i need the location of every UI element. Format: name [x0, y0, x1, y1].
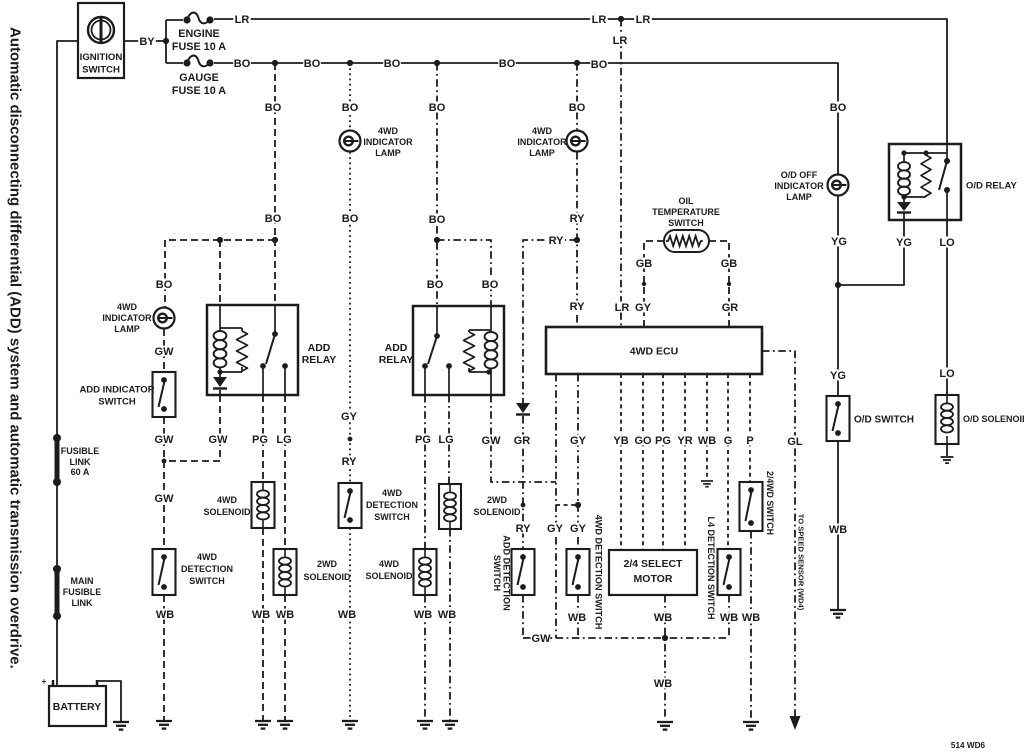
label GY x556	[546, 523, 564, 536]
label O/D OFF INDICATOR LAMP	[774, 170, 824, 202]
svg-text:2WD: 2WD	[317, 559, 338, 569]
2/4WD switch S9	[740, 482, 763, 531]
svg-text:O/D SWITCH: O/D SWITCH	[854, 415, 914, 426]
label BO x491	[481, 279, 499, 292]
ADD relay K1 box	[207, 305, 298, 395]
label PG x663	[654, 435, 672, 448]
svg-text:BO: BO	[156, 279, 173, 291]
svg-text:O/D RELAY: O/D RELAY	[966, 180, 1018, 191]
ground x838	[830, 610, 846, 618]
label WB x665 lower	[654, 678, 672, 691]
label LR on bus 2	[590, 14, 608, 27]
wire x164 switch to ground	[163, 595, 165, 720]
wire LG relay1 to 2WD solenoid	[284, 395, 286, 549]
svg-text:LO: LO	[939, 237, 955, 249]
arrow to speed sensor	[790, 716, 801, 730]
label ADD RELAY (K2)	[379, 342, 414, 366]
svg-text:RELAY: RELAY	[302, 354, 337, 366]
2/4 select motor M1	[609, 550, 697, 595]
ground x947	[941, 457, 954, 463]
label WB x578	[568, 612, 586, 625]
svg-text:GAUGE: GAUGE	[179, 72, 219, 84]
svg-text:BO: BO	[304, 58, 321, 70]
svg-text:O/D SOLENOID: O/D SOLENOID	[963, 414, 1024, 424]
label LR x621 lower	[613, 302, 631, 315]
wire LR bus	[214, 19, 947, 144]
label YR	[676, 435, 694, 448]
label 4WD INDICATOR LAMP (L1)	[363, 126, 413, 158]
wire x523 switch to WB bus	[522, 595, 524, 638]
label GW x165 upper	[155, 346, 175, 359]
svg-text:OIL: OIL	[679, 196, 695, 206]
label O/D RELAY	[966, 180, 1018, 191]
svg-text:LR: LR	[592, 14, 607, 26]
svg-text:GY: GY	[341, 411, 358, 423]
svg-text:TEMPERATURE: TEMPERATURE	[652, 207, 720, 217]
svg-text:LINK: LINK	[70, 457, 91, 467]
svg-text:+: +	[42, 677, 47, 686]
svg-text:INDICATOR: INDICATOR	[517, 137, 567, 147]
wire BO lamp column x577 upper	[576, 63, 578, 130]
4WD ECU U1	[546, 327, 762, 374]
svg-text:INDICATOR: INDICATOR	[102, 313, 152, 323]
svg-text:RY: RY	[570, 213, 586, 225]
label WB x425	[414, 609, 432, 622]
main fusible link F2	[53, 565, 61, 620]
svg-text:LR: LR	[615, 302, 630, 314]
O/D OFF indicator lamp L4	[828, 175, 849, 196]
junction x275 y240	[272, 237, 278, 243]
label 4WD INDICATOR LAMP (L3)	[102, 302, 152, 334]
svg-text:Automatic disconnecting differ: Automatic disconnecting differential (AD…	[7, 27, 24, 669]
wire oil switch left lead GB/GY	[644, 241, 664, 327]
junction x437 y240	[434, 237, 440, 243]
ground x263	[255, 721, 271, 729]
svg-text:SOLENOID: SOLENOID	[473, 507, 521, 517]
svg-text:WB: WB	[156, 609, 174, 621]
4WD detection switch S5	[153, 549, 176, 595]
svg-text:YB: YB	[613, 435, 628, 447]
ground x350	[342, 721, 358, 729]
svg-text:LG: LG	[276, 434, 291, 446]
junction x665 y638	[662, 635, 668, 641]
wire 2/4WD switch to ground	[750, 531, 752, 720]
svg-text:RY: RY	[549, 235, 565, 247]
label BO on bus 4	[498, 58, 516, 71]
ground x425	[417, 721, 433, 729]
oil temperature switch S3	[664, 230, 709, 252]
svg-text:LR: LR	[613, 35, 628, 47]
svg-text:BO: BO	[429, 214, 446, 226]
label GB left	[635, 258, 653, 271]
label LG x449	[437, 434, 455, 447]
svg-text:RY: RY	[342, 456, 358, 468]
junction x577 y240	[574, 237, 580, 243]
junction x523 y505	[521, 503, 526, 508]
label PG x425	[414, 434, 432, 447]
label LO lower	[938, 368, 956, 381]
junction BO bus x275	[272, 60, 278, 66]
wire ECU pin WB to ground	[706, 374, 708, 480]
label GW on WB bus	[532, 633, 552, 646]
svg-text:SWITCH: SWITCH	[98, 396, 136, 407]
label WB x285	[276, 609, 294, 622]
svg-text:FUSE 10 A: FUSE 10 A	[172, 85, 226, 97]
label O/D SOLENOID	[963, 414, 1024, 424]
svg-text:YG: YG	[831, 236, 847, 248]
wire BO drop x437	[436, 63, 438, 306]
L4 detection switch S8	[718, 549, 741, 595]
svg-text:RELAY: RELAY	[379, 354, 414, 366]
label WB x707	[698, 435, 716, 448]
svg-text:G: G	[724, 435, 733, 447]
svg-text:GO: GO	[634, 435, 652, 447]
label MAIN FUSIBLE LINK	[63, 576, 102, 608]
svg-text:GR: GR	[514, 435, 531, 447]
4WD indicator lamp L2	[567, 131, 588, 152]
wire O/D relay coil YG to lamp junction	[838, 220, 904, 285]
label BO on bus 1	[233, 58, 251, 71]
junction LR bus at x621	[618, 16, 624, 22]
4WD indicator lamp L1	[340, 131, 361, 152]
svg-text:GY: GY	[570, 435, 587, 447]
label GAUGE FUSE 10 A	[172, 72, 226, 97]
wire x285 solenoid to ground	[284, 595, 286, 720]
ADD indicator switch S4	[153, 372, 176, 417]
junction x838 y285	[835, 282, 841, 288]
junction BY node	[163, 38, 169, 44]
junction BO bus x437	[434, 60, 440, 66]
label GW x220	[209, 434, 229, 447]
junction x578 y505	[575, 502, 581, 508]
label BO on bus 3	[383, 58, 401, 71]
svg-text:BO: BO	[591, 59, 608, 71]
label BO x437 upper	[428, 102, 446, 115]
label ADD INDICATOR SWITCH	[79, 384, 154, 407]
svg-text:BO: BO	[265, 213, 282, 225]
label BO x577 upper	[568, 102, 586, 115]
svg-text:PG: PG	[415, 434, 431, 446]
ground x450	[442, 721, 458, 729]
label LR on bus 1	[233, 14, 251, 27]
battery B1	[42, 676, 106, 726]
label GO	[634, 435, 652, 448]
svg-text:INDICATOR: INDICATOR	[363, 137, 413, 147]
svg-text:O/D OFF: O/D OFF	[781, 170, 818, 180]
svg-text:4WD ECU: 4WD ECU	[630, 346, 678, 358]
label RY x523	[514, 523, 532, 536]
svg-text:PG: PG	[655, 435, 671, 447]
wire GW relay2 to GY node	[491, 395, 556, 482]
gauge fuse 10A	[183, 56, 213, 67]
wire PG relay1 to 4WD solenoid	[262, 395, 264, 482]
svg-text:GY: GY	[547, 523, 564, 535]
ADD relay K2 coil branch	[464, 306, 498, 395]
svg-text:4WD: 4WD	[379, 559, 400, 569]
O/D relay K3 box	[889, 144, 961, 220]
svg-text:GW: GW	[155, 346, 175, 358]
label BO x437 mid	[428, 214, 446, 227]
svg-text:SWITCH: SWITCH	[374, 512, 410, 522]
label figure number 514 WD6	[951, 741, 986, 750]
ADD relay K1 diode	[213, 377, 227, 389]
label WB x665 upper	[654, 612, 672, 625]
label RY x577 lower	[568, 301, 586, 314]
svg-text:SOLENOID: SOLENOID	[303, 572, 351, 582]
engine fuse 10A	[183, 13, 213, 24]
svg-text:INDICATOR: INDICATOR	[774, 181, 824, 191]
ignition switch S1	[78, 3, 124, 78]
svg-text:4WD DETECTION SWITCH: 4WD DETECTION SWITCH	[594, 515, 604, 630]
ADD detection switch S6	[512, 549, 535, 595]
label WB x450	[438, 609, 456, 622]
wire ECU pin GO	[642, 374, 644, 550]
wire coil feed ADD relay 1	[219, 240, 221, 305]
svg-text:4WD: 4WD	[532, 126, 553, 136]
wire branch y240 to lamp column	[165, 240, 275, 307]
svg-text:ADD INDICATOR: ADD INDICATOR	[79, 384, 154, 395]
wire ECU GL output	[762, 351, 795, 716]
wire O/D solenoid to ground	[946, 444, 948, 456]
svg-text:BATTERY: BATTERY	[53, 701, 101, 713]
label ADD DETECTION SWITCH (S6)	[492, 535, 512, 611]
wire GY link y505	[556, 504, 578, 506]
svg-text:BY: BY	[139, 36, 155, 48]
svg-text:GY: GY	[635, 302, 652, 314]
svg-text:TO SPEED SENSOR (WD4): TO SPEED SENSOR (WD4)	[796, 514, 805, 611]
svg-text:FUSE 10 A: FUSE 10 A	[172, 41, 226, 53]
svg-text:4WD: 4WD	[378, 126, 399, 136]
fusible link 60A F1	[53, 434, 61, 486]
wire fuse branch vertical	[165, 20, 167, 63]
wire ECU pin YB	[620, 374, 622, 550]
wire LG relay2 to 2WD solenoid	[448, 395, 450, 484]
svg-text:PG: PG	[252, 434, 268, 446]
svg-text:4WD: 4WD	[217, 495, 238, 505]
svg-text:4WD: 4WD	[117, 302, 138, 312]
label GY x644	[634, 302, 652, 315]
wire PG relay2 to 4WD solenoid	[424, 395, 426, 549]
junction BO bus x577	[574, 60, 580, 66]
O/D relay K3 diode	[897, 202, 911, 213]
label GY x578 lower	[569, 523, 587, 536]
svg-text:WB: WB	[654, 612, 672, 624]
svg-text:BO: BO	[569, 102, 586, 114]
label LR on bus 3	[634, 14, 652, 27]
label LR x621 upper	[611, 35, 629, 48]
svg-text:WB: WB	[438, 609, 456, 621]
svg-text:GW: GW	[532, 633, 552, 645]
svg-text:WB: WB	[698, 435, 716, 447]
ground x751	[743, 722, 759, 730]
label G	[723, 435, 734, 448]
svg-text:WB: WB	[742, 612, 760, 624]
label 2WD SOLENOID (SOL2)	[303, 559, 351, 582]
ADD relay K1 switch	[260, 305, 288, 395]
wire lamp L3 to ADD indicator switch	[163, 329, 165, 372]
junction x164 y461	[162, 459, 167, 464]
4WD indicator lamp L3	[154, 308, 175, 329]
svg-text:MOTOR: MOTOR	[634, 573, 673, 585]
label YG x904	[895, 237, 913, 250]
label GR x523	[513, 435, 531, 448]
ADD relay K1 coil branch	[214, 305, 248, 377]
label OIL TEMPERATURE SWITCH	[652, 196, 720, 228]
wire battery positive-side to ground	[97, 681, 121, 722]
wire ECU pin GY1 (x556)	[555, 374, 557, 638]
svg-text:60 A: 60 A	[71, 467, 90, 477]
svg-text:2/4 SELECT: 2/4 SELECT	[624, 558, 684, 570]
label 4WD DETECTION SWITCH (S2)	[366, 488, 418, 522]
svg-text:FUSIBLE: FUSIBLE	[63, 587, 102, 597]
svg-text:BO: BO	[234, 58, 251, 70]
svg-text:LAMP: LAMP	[786, 192, 812, 202]
wire ECU pin GY2 (x578)	[577, 374, 579, 549]
svg-text:BO: BO	[482, 279, 499, 291]
svg-text:BO: BO	[429, 102, 446, 114]
label 2WD SOLENOID (SOL4)	[473, 495, 521, 517]
wire LO O/D relay to solenoid	[946, 220, 948, 395]
label 4WD DETECTION SWITCH (S5)	[181, 552, 233, 586]
junction x350 y439	[348, 437, 353, 442]
svg-text:WB: WB	[414, 609, 432, 621]
ADD relay K2 box	[413, 306, 504, 395]
svg-text:WB: WB	[252, 609, 270, 621]
label ADD RELAY (K1)	[302, 342, 337, 366]
ground x285	[277, 721, 293, 729]
wire to gauge fuse	[166, 62, 183, 64]
junction x729 y284	[727, 282, 731, 286]
svg-text:ADD: ADD	[385, 342, 408, 354]
svg-text:SWITCH: SWITCH	[189, 576, 225, 586]
label YG x838 lower	[829, 370, 847, 383]
wire branch y240 to relay2 coil	[437, 240, 491, 306]
svg-text:GB: GB	[721, 258, 738, 270]
wire RY branch to diode column	[523, 240, 577, 403]
svg-text:DETECTION: DETECTION	[181, 564, 233, 574]
wire lamp column x350 lower	[349, 152, 351, 483]
junction x644 y284	[642, 282, 646, 286]
ground x665	[657, 722, 673, 730]
svg-text:LINK: LINK	[72, 598, 93, 608]
svg-text:YG: YG	[830, 370, 846, 382]
label BY	[138, 36, 156, 49]
wire motor to WB bus and ground	[664, 595, 666, 720]
2WD solenoid SOL2	[274, 549, 297, 595]
label WB x263	[252, 609, 270, 622]
label LG x285	[275, 434, 293, 447]
svg-text:FUSIBLE: FUSIBLE	[61, 446, 100, 456]
svg-text:GW: GW	[482, 435, 502, 447]
svg-text:BO: BO	[499, 58, 516, 70]
4WD solenoid SOL1	[252, 482, 275, 528]
svg-text:4WD: 4WD	[197, 552, 218, 562]
svg-text:MAIN: MAIN	[71, 576, 94, 586]
label GL	[786, 436, 804, 449]
junction BO bus x350	[347, 60, 353, 66]
wire O/D relay diode to box bottom	[903, 213, 905, 221]
label 4WD SOLENOID (SOL1)	[203, 495, 251, 517]
2WD solenoid SOL4	[439, 484, 461, 529]
svg-text:2/4WD SWITCH: 2/4WD SWITCH	[765, 471, 775, 535]
wire WB bus y638	[523, 637, 729, 639]
svg-text:SWITCH: SWITCH	[492, 555, 502, 592]
label 4WD SOLENOID (SOL3)	[365, 559, 413, 581]
label RY x577 upper	[568, 213, 586, 226]
label RY x350	[340, 456, 358, 469]
wire ignition switch to fuse junction	[124, 40, 166, 42]
label GY x350	[340, 411, 358, 424]
svg-text:WB: WB	[654, 678, 672, 690]
wire lamp column x577 lower	[576, 152, 578, 327]
ground x707 (ECU WB pin)	[701, 481, 713, 487]
svg-text:GL: GL	[787, 436, 803, 448]
svg-text:LG: LG	[438, 434, 453, 446]
svg-text:DETECTION: DETECTION	[366, 500, 418, 510]
wire x425 solenoid to ground	[424, 595, 426, 720]
label BO on bus 5	[590, 59, 608, 72]
svg-text:ADD: ADD	[308, 342, 331, 354]
wire lamp L4 down to junction	[837, 196, 839, 396]
wire BO drop x275	[274, 63, 276, 305]
junction x220 y240	[217, 237, 223, 243]
wire x350 switch to ground	[349, 528, 351, 720]
label LO upper	[938, 237, 956, 250]
wire ADD relay K1 diode to box bottom	[219, 390, 221, 395]
O/D relay K3 coil branch	[898, 150, 947, 202]
label WB x729	[720, 612, 738, 625]
svg-text:GW: GW	[155, 434, 175, 446]
label WB x838	[829, 524, 847, 537]
svg-text:RY: RY	[570, 301, 586, 313]
svg-text:SWITCH: SWITCH	[82, 65, 120, 76]
svg-text:L4 DETECTION SWITCH: L4 DETECTION SWITCH	[706, 517, 716, 620]
label GY x578	[569, 435, 587, 448]
label GW x165 lower	[155, 493, 175, 506]
svg-text:2WD: 2WD	[487, 495, 508, 505]
O/D switch S10	[827, 396, 850, 441]
svg-text:SOLENOID: SOLENOID	[365, 571, 413, 581]
O/D solenoid SOL5	[936, 395, 959, 444]
4WD detection switch S2	[339, 483, 362, 528]
label BO on bus 2	[303, 58, 321, 71]
label ENGINE FUSE 10 A	[172, 28, 226, 53]
label GW x491	[482, 435, 502, 448]
label BO x165	[155, 279, 173, 292]
svg-text:LAMP: LAMP	[375, 148, 401, 158]
label 4WD INDICATOR LAMP (L2)	[517, 126, 567, 158]
svg-text:GW: GW	[155, 493, 175, 505]
label YG x838 upper	[830, 236, 848, 249]
svg-text:LR: LR	[235, 14, 250, 26]
svg-text:ENGINE: ENGINE	[178, 28, 219, 40]
label WB x350	[338, 609, 356, 622]
svg-text:SWITCH: SWITCH	[668, 218, 704, 228]
svg-text:WB: WB	[338, 609, 356, 621]
svg-text:SOLENOID: SOLENOID	[203, 507, 251, 517]
wire ADD indicator switch down	[163, 417, 165, 549]
svg-text:WB: WB	[829, 524, 847, 536]
wire L4 switch to WB bus	[728, 595, 730, 638]
wire to engine fuse	[166, 19, 183, 21]
svg-text:LR: LR	[636, 14, 651, 26]
svg-text:BO: BO	[342, 213, 359, 225]
label BO x838	[829, 102, 847, 115]
label O/D SWITCH	[854, 415, 914, 426]
svg-text:BO: BO	[384, 58, 401, 70]
wire x523 diode to ADD detection switch	[522, 416, 524, 549]
wire oil switch right lead GB/GR	[709, 241, 729, 327]
